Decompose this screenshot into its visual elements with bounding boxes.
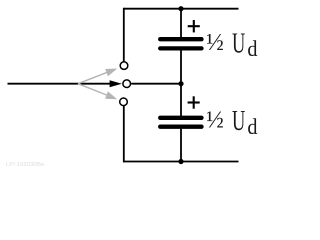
svg-text:½: ½ (206, 30, 224, 56)
C1 polarity plus sign (188, 20, 200, 32)
capacitor C1 lower lead to midpoint (180, 50, 182, 84)
node: midpoint junction dot (178, 81, 183, 86)
switch: pole contact circle (123, 80, 131, 88)
svg-text:d: d (247, 114, 257, 139)
svg-text:U: U (232, 29, 245, 60)
left vertical wire (bottom segment from switch bottom contact) (123, 106, 125, 162)
black arrow head (active switch position, pointing at pole contact) (110, 80, 122, 87)
top rail wire (124, 8, 239, 10)
node: top junction dot (178, 6, 183, 11)
switch: bottom contact circle (120, 98, 128, 106)
svg-text:½: ½ (206, 107, 224, 133)
gray arrow to bottom contact (78, 84, 117, 100)
wire from pole contact to capacitor midpoint (131, 83, 181, 85)
svg-text:LP²-10203DBe: LP²-10203DBe (6, 162, 44, 168)
C2 value label: 1/2 Ud (206, 106, 258, 139)
bottom rail wire (124, 161, 239, 163)
input wire (8, 83, 113, 85)
svg-text:d: d (247, 36, 257, 61)
capacitor C2 lower lead to bottom rail (180, 129, 182, 162)
node: bottom junction dot (178, 159, 183, 164)
capacitor C2 upper lead from midpoint (180, 84, 182, 116)
svg-text:U: U (232, 106, 245, 137)
C1 value label: 1/2 Ud (206, 29, 258, 62)
capacitor C1 top branch wire (180, 9, 182, 38)
gray arrow to top contact (78, 69, 117, 84)
left vertical wire (top segment to switch top contact) (123, 8, 125, 62)
C2 polarity plus sign (188, 96, 200, 108)
switch: top contact circle (120, 62, 128, 70)
capacitor C2 plates (160, 118, 201, 127)
capacitor C1 plates (160, 39, 201, 48)
